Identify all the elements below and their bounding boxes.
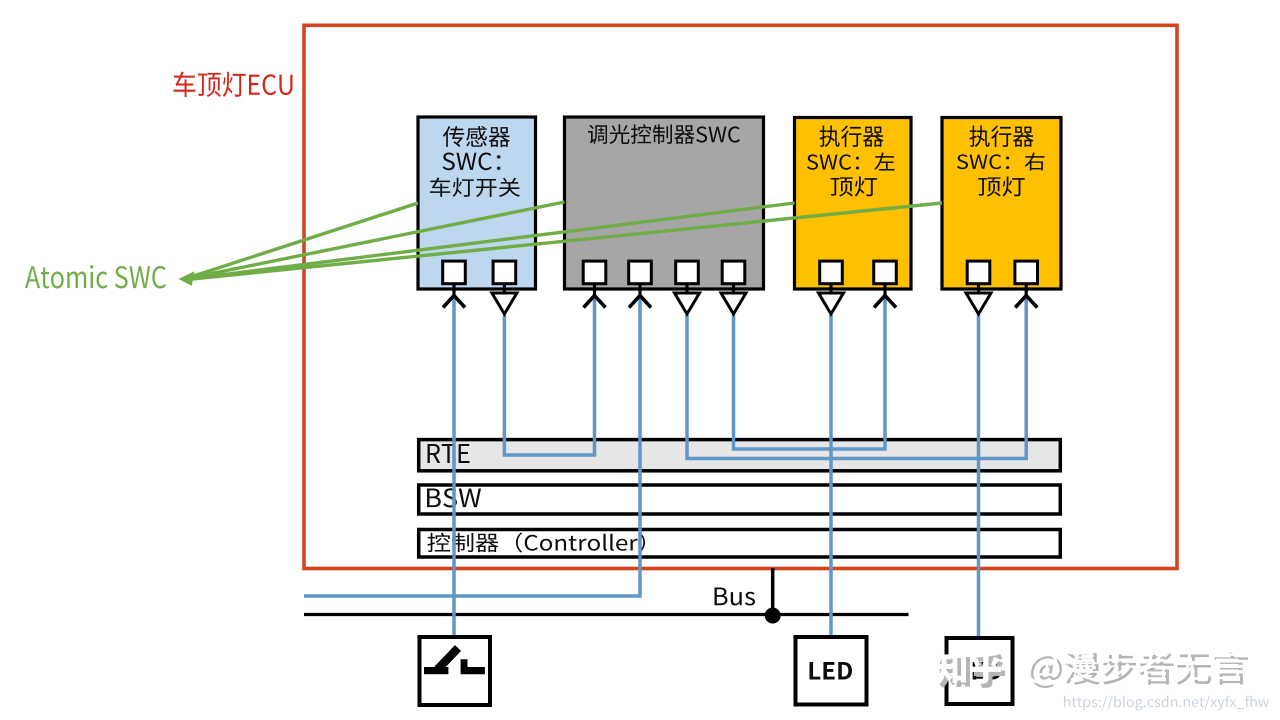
BSW bar: [419, 485, 1061, 514]
bus junction dot: [765, 608, 781, 624]
label Bus: [714, 588, 755, 606]
wire left actuator P1 to LED: [829, 315, 833, 638]
bus stub from ECU: [771, 568, 775, 615]
port dimmer P2 required: [629, 261, 652, 284]
port right actuator P2 required: [1015, 261, 1038, 284]
dimmer SWC box 调光控制器SWC: [565, 117, 764, 289]
port dimmer P4 provided: [722, 261, 745, 284]
port right actuator P1 provided: [967, 261, 990, 284]
wire sensor P1 to switch: [452, 297, 456, 636]
watermark url: [1064, 696, 1269, 711]
port sensor P1 required: [443, 261, 466, 284]
controller bar 控制器（Controller）: [419, 530, 1061, 558]
port dimmer P3 provided: [676, 261, 699, 284]
port left actuator P2 required: [874, 261, 897, 284]
arrowhead: [179, 271, 195, 286]
wire right actuator P1 to LED: [977, 315, 981, 638]
wire dimmer P2 to bus side: [304, 297, 640, 596]
port sensor P2 provided: [493, 261, 516, 284]
LED device box left: [796, 637, 867, 705]
label 车顶灯ECU: [173, 71, 292, 97]
wire sensor P2 to dimmer P1 via RTE: [504, 297, 594, 455]
watermark 知乎 @漫步者无言: [939, 652, 1248, 688]
sensor SWC box 传感器SWC：车灯开关: [418, 117, 536, 289]
port dimmer P1 required: [583, 261, 606, 284]
actuator SWC box 执行器SWC：左顶灯: [795, 118, 912, 290]
LED device box right: [947, 638, 1013, 704]
actuator SWC box 执行器SWC：右顶灯: [942, 118, 1061, 290]
label Atomic SWC: [25, 265, 166, 288]
RTE bar: [419, 440, 1061, 471]
wire dimmer P3 to right actuator P2 via RTE: [687, 297, 1026, 459]
switch icon: [424, 667, 448, 674]
wire dimmer P4 to left actuator P2 via RTE: [734, 297, 886, 449]
port left actuator P1 provided: [820, 261, 843, 284]
ECU boundary box 车顶灯ECU: [304, 25, 1177, 568]
bus line: [304, 613, 909, 616]
switch device box: [420, 637, 491, 705]
annotation lines to Atomic SWC: [192, 203, 418, 277]
